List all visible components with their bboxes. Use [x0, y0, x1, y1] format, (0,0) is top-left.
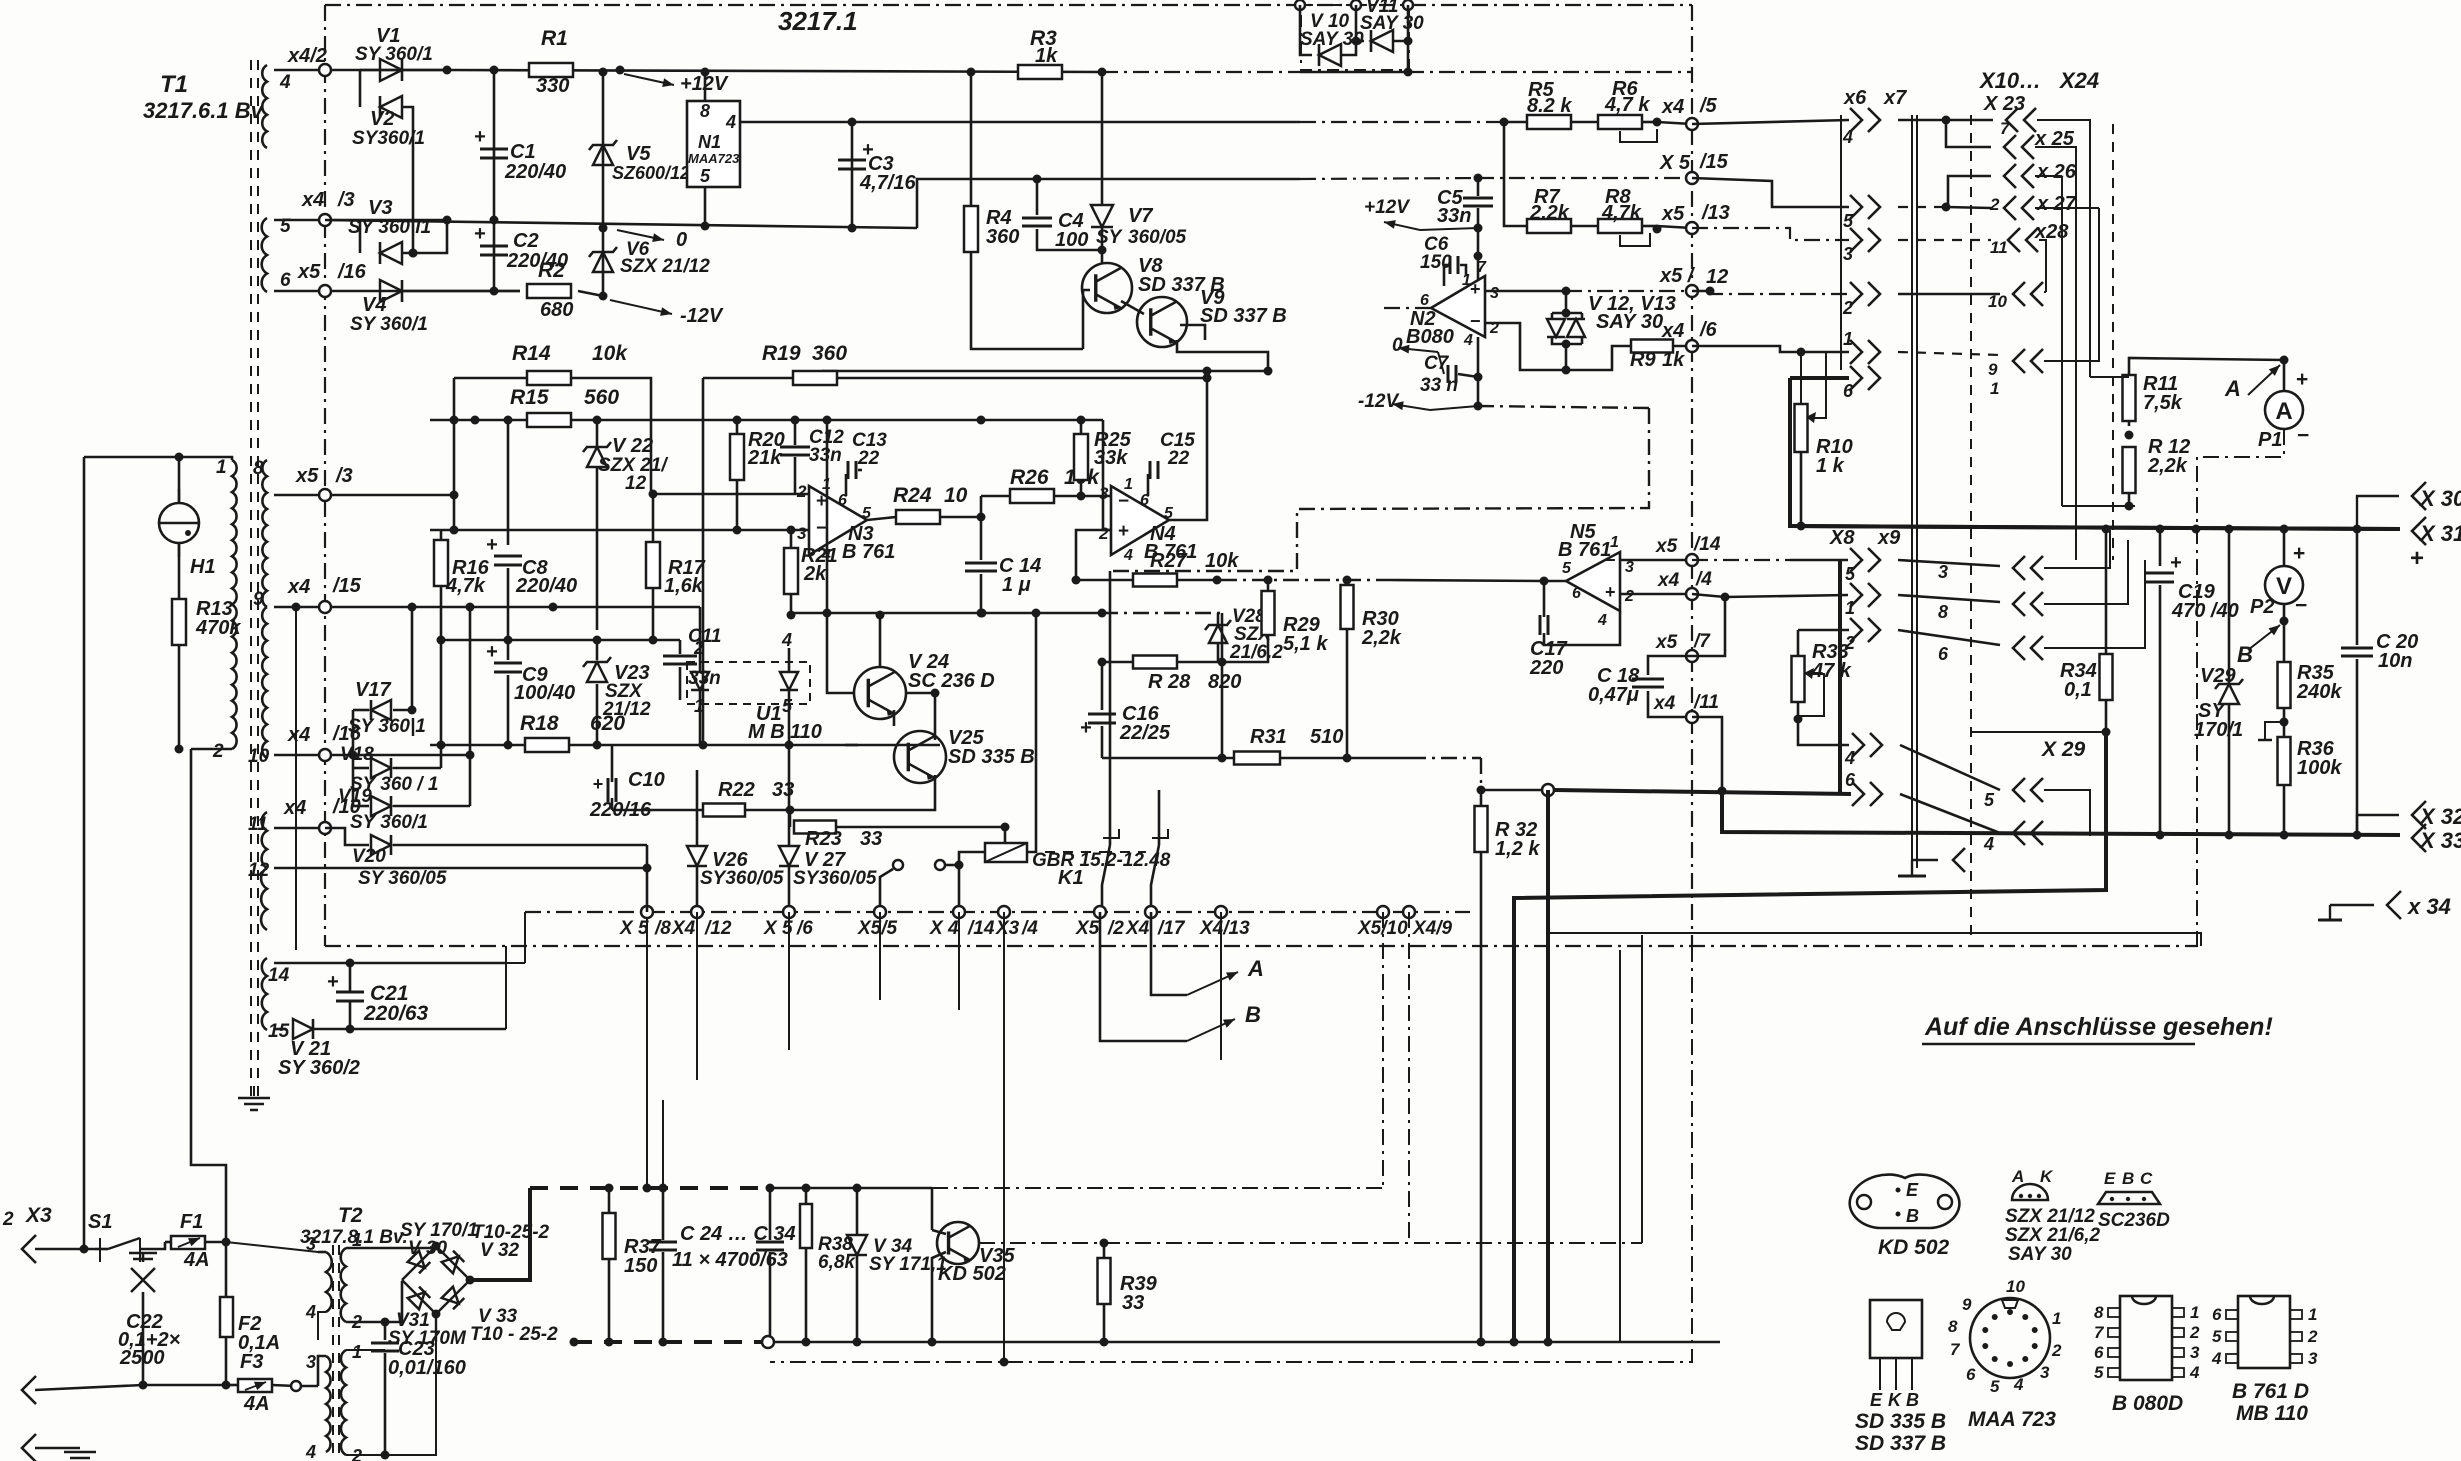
svg-text:0: 0 [676, 229, 687, 251]
diode V26 [696, 770, 699, 846]
svg-text:SAY 30: SAY 30 [1596, 311, 1663, 333]
svg-text:220/40: 220/40 [504, 161, 566, 183]
svg-text:510: 510 [1310, 726, 1343, 748]
svg-text:33 n: 33 n [1420, 375, 1458, 396]
svg-text:A: A [1247, 956, 1264, 981]
svg-text:1k: 1k [1035, 45, 1058, 67]
pin x4/15 [274, 606, 700, 609]
capacitor C11 [679, 640, 682, 654]
svg-text:4: 4 [1844, 748, 1855, 768]
wire R12 bottom [2062, 505, 2135, 507]
capacitor C23 [384, 1322, 387, 1340]
svg-text:X 30: X 30 [2418, 486, 2461, 511]
svg-text:170/: 170/ [2194, 719, 2235, 741]
connector X25 [1946, 120, 1991, 147]
svg-text:220/63: 220/63 [363, 1002, 429, 1025]
svg-text:+: + [474, 223, 486, 245]
diode V1 [360, 69, 447, 72]
svg-text:3: 3 [1843, 244, 1853, 264]
svg-text:/7: /7 [1693, 631, 1711, 652]
svg-text:0,1: 0,1 [2064, 679, 2092, 701]
svg-text:X5/5: X5/5 [857, 918, 898, 939]
svg-text:V7: V7 [1128, 205, 1153, 227]
svg-text:240k: 240k [2296, 681, 2342, 703]
thick column x1548 [1546, 790, 1550, 933]
connector X26 [2004, 164, 2016, 188]
wire y615 to V22col [826, 420, 829, 615]
diode V18 [371, 758, 391, 778]
svg-text:V2: V2 [370, 108, 394, 130]
diode V3 [359, 220, 362, 253]
R8 bracket [1620, 233, 1650, 246]
wire V24 base [827, 615, 854, 693]
svg-text:4,7k: 4,7k [445, 575, 486, 597]
resistor R16 [440, 530, 443, 540]
svg-text:/12: /12 [704, 918, 732, 939]
pin x4/9 [1403, 906, 1415, 918]
svg-text:x5: x5 [295, 465, 319, 487]
svg-text:22/25: 22/25 [1119, 722, 1171, 744]
svg-text:C1: C1 [510, 141, 536, 163]
bus y1342 [574, 1340, 762, 1344]
capacitor C9 [507, 640, 510, 660]
diode V11 [1356, 40, 1364, 43]
wire x5/14 to X8 [1692, 559, 1790, 561]
svg-text:R2: R2 [538, 259, 565, 282]
svg-text:V20: V20 [352, 846, 386, 867]
resistor R37 [608, 1188, 611, 1213]
svg-text:/13: /13 [1701, 202, 1730, 224]
pin x5/2 [1094, 906, 1106, 918]
svg-text:SY 170M: SY 170M [388, 1328, 467, 1349]
pin x4/11 [1686, 711, 1698, 723]
svg-text:V 30: V 30 [408, 1238, 448, 1259]
op-amp N5 [1566, 552, 1620, 611]
svg-text:X4: X4 [671, 918, 696, 939]
svg-text:0,01/160: 0,01/160 [388, 1357, 466, 1379]
arrow -12V N2 [1392, 404, 1430, 410]
wire H1 top [178, 457, 181, 503]
wire left mains vertical [83, 457, 86, 1249]
module border left [324, 5, 326, 946]
wire C5-N2 [1477, 228, 1480, 288]
svg-text:4A: 4A [243, 1393, 270, 1415]
svg-text:SZX 21/12: SZX 21/12 [2005, 1206, 2095, 1227]
resistor R9 [1631, 340, 1673, 353]
svg-text:4: 4 [305, 1302, 316, 1322]
wire R13 [178, 543, 181, 599]
svg-text:X4/13: X4/13 [1199, 918, 1250, 939]
wire x5/7 [1692, 597, 1725, 656]
svg-text:−: − [2297, 424, 2309, 447]
svg-text:6: 6 [2212, 1305, 2222, 1324]
svg-text:x7: x7 [1883, 87, 1907, 109]
svg-text:N1: N1 [698, 132, 721, 152]
wire aux up1 [506, 962, 525, 964]
bridge V30-V33 [436, 1246, 470, 1280]
pin x5/5 [874, 906, 886, 918]
svg-text:1: 1 [1843, 329, 1853, 349]
svg-text:2: 2 [1989, 195, 2000, 214]
fuse F1 [171, 1236, 205, 1249]
diode V21 [274, 1028, 286, 1031]
svg-text:R23: R23 [805, 828, 842, 850]
connector X28 [1898, 239, 1991, 241]
svg-text:2,2k: 2,2k [2147, 455, 2188, 477]
transistor V35 [937, 1222, 979, 1264]
U1 photodiode [780, 672, 798, 690]
svg-text:6: 6 [1938, 644, 1949, 664]
svg-text:x4: x4 [301, 189, 324, 211]
svg-text:4: 4 [1597, 612, 1607, 629]
svg-text:SY 360/1: SY 360/1 [350, 812, 428, 833]
svg-text:R19: R19 [762, 342, 801, 365]
arrow 0 [617, 230, 664, 240]
svg-text:3: 3 [1490, 285, 1499, 302]
capacitor C19 [2159, 529, 2162, 566]
wire N5 -in [1620, 559, 1692, 562]
wire V25 emitter [790, 775, 935, 810]
relay dashed link [1027, 851, 1102, 853]
thick sense bus [1514, 732, 2106, 1342]
connector X8 row4 [1852, 733, 1864, 757]
svg-text:10k: 10k [592, 342, 628, 365]
wire V10 box down [1407, 41, 1410, 72]
transformer T1 core [250, 60, 252, 1105]
resistor R35 [2278, 662, 2291, 708]
X31 bus [1790, 526, 2400, 529]
svg-text:x5: x5 [1655, 632, 1678, 653]
transistor V25 [894, 731, 946, 783]
svg-text:22: 22 [1167, 448, 1190, 469]
svg-text:7: 7 [2000, 119, 2011, 138]
svg-text:1: 1 [216, 457, 227, 478]
wires from pin row down [696, 912, 698, 1080]
svg-text:F1: F1 [180, 1211, 203, 1233]
pin x4/4 [1686, 588, 1698, 600]
package B080D [2120, 1296, 2172, 1380]
svg-text:-12V: -12V [1358, 391, 1399, 412]
resistor R26 [981, 495, 1010, 498]
svg-text:8.2 k: 8.2 k [1527, 95, 1572, 117]
svg-text:4: 4 [1463, 332, 1473, 349]
svg-text:3217.1: 3217.1 [778, 6, 858, 36]
resistor R5 [1504, 121, 1527, 124]
svg-text:6: 6 [1572, 585, 1581, 602]
pin top2 [1351, 0, 1361, 10]
svg-text:2: 2 [1842, 298, 1853, 318]
svg-text:x5 /: x5 / [1659, 265, 1696, 287]
svg-text:SY 360/1: SY 360/1 [350, 314, 428, 335]
svg-text:GBR 15.2-12.48: GBR 15.2-12.48 [1032, 850, 1171, 871]
resistor R8 [1571, 225, 1598, 228]
connector row3 [1850, 228, 1862, 252]
svg-text:A: A [2224, 376, 2241, 401]
resistor R11 [2129, 358, 2284, 377]
svg-text:3: 3 [2040, 1363, 2050, 1382]
svg-text:SY360/05: SY360/05 [793, 868, 877, 889]
svg-text:SD 335 B: SD 335 B [948, 746, 1035, 768]
conn row4 to X23 [1898, 119, 1946, 122]
svg-text:560: 560 [584, 386, 619, 409]
bridge bottom [435, 1314, 437, 1342]
wire x5/15 [1478, 177, 1692, 179]
svg-text:B 761: B 761 [1558, 539, 1611, 561]
svg-text:2: 2 [212, 741, 224, 762]
svg-text:3: 3 [2190, 1343, 2200, 1362]
svg-text:3: 3 [306, 1234, 316, 1254]
transistor V24 [854, 667, 906, 719]
svg-text:4: 4 [1842, 127, 1853, 147]
svg-text:R1: R1 [541, 27, 568, 50]
svg-text:8: 8 [1938, 602, 1948, 622]
svg-text:C: C [2140, 1169, 2153, 1188]
package MAA723 [1970, 1298, 2050, 1378]
x4/15 line mid [699, 607, 702, 656]
pin x5/12 [1686, 285, 1698, 297]
svg-text:5: 5 [1845, 564, 1856, 584]
svg-text:21k: 21k [747, 447, 782, 469]
svg-text:14: 14 [268, 965, 290, 986]
svg-text:+: + [327, 971, 339, 993]
arrow +12V N2 [1384, 222, 1420, 230]
svg-text:B: B [1245, 1002, 1261, 1027]
wire P1 bottom [2197, 429, 2284, 946]
svg-text:12: 12 [625, 473, 647, 494]
capacitor C8 [507, 420, 510, 545]
svg-text:5: 5 [2094, 1363, 2104, 1382]
svg-text:5: 5 [2212, 1327, 2222, 1346]
zener V22 [596, 420, 599, 447]
terminal small1 [893, 860, 903, 870]
pin x4/2 [274, 69, 447, 72]
pin x5/15 [1686, 172, 1698, 184]
svg-text:/15: /15 [332, 575, 362, 597]
capacitor C1 [493, 70, 496, 220]
svg-text:x5: x5 [297, 261, 321, 283]
diode V20 [325, 828, 369, 845]
wire V25 collector [906, 693, 935, 740]
zener V34 [856, 1188, 859, 1235]
wire +12V to C5 [1420, 228, 1478, 230]
svg-text:-12V: -12V [680, 305, 724, 327]
capacitor C17 [1543, 581, 1546, 617]
svg-text:B 761 D: B 761 D [2232, 1380, 2309, 1403]
capacitor C6 [1444, 264, 1448, 267]
X30 terminal [2357, 496, 2399, 529]
connector row5 [1850, 195, 1862, 219]
svg-text:E: E [1906, 1180, 1919, 1200]
svg-text:+: + [1080, 717, 1092, 739]
pin x5/14 [1686, 554, 1698, 566]
svg-text:10: 10 [944, 484, 968, 507]
svg-text:B: B [2122, 1169, 2134, 1188]
svg-text:X8: X8 [1829, 527, 1855, 549]
svg-text:MAA723: MAA723 [688, 151, 740, 166]
resistor R18 [430, 744, 527, 747]
connector X8 row5 [1850, 548, 1862, 572]
line y640 [441, 639, 680, 642]
diode V2 [359, 70, 362, 107]
svg-text:11: 11 [1990, 238, 2008, 257]
svg-text:/5: /5 [1699, 95, 1718, 117]
wire V12 bottom to R9 [1566, 346, 1631, 370]
svg-text:R15: R15 [510, 386, 549, 409]
svg-text:1: 1 [2232, 719, 2243, 741]
arrow A meter [2248, 365, 2280, 395]
package KD502 [1850, 1175, 1960, 1228]
svg-text:x4: x4 [1661, 96, 1684, 118]
zener V28 [1209, 625, 1227, 643]
svg-text:10: 10 [2006, 1277, 2025, 1296]
svg-text:4: 4 [305, 1442, 316, 1461]
svg-text:10: 10 [248, 746, 270, 767]
svg-text:220: 220 [1529, 657, 1563, 679]
svg-text:C7: C7 [1424, 353, 1450, 374]
optocoupler U1 box [687, 662, 810, 704]
arrow A line [1151, 912, 1187, 995]
svg-text:1: 1 [352, 1342, 362, 1362]
resistor R23 [789, 810, 792, 827]
junction dots top [443, 66, 452, 75]
wire tap9 down [295, 607, 297, 950]
R6 bracket [1620, 129, 1657, 142]
svg-text:K1: K1 [1058, 867, 1084, 889]
connector X8 row6 [1852, 782, 1864, 806]
svg-text:4: 4 [1983, 834, 1994, 854]
arrow +12V [624, 74, 674, 85]
voltmeter P2 [2283, 529, 2286, 566]
wire N5 out [1544, 580, 1566, 583]
svg-text:X3: X3 [25, 1204, 52, 1227]
wire x5/13 to conn [1692, 228, 1849, 240]
ground mains [35, 1447, 80, 1450]
pin x5/7 [1686, 650, 1698, 662]
svg-text:x 26: x 26 [2036, 161, 2077, 183]
diode V17 [353, 709, 369, 712]
svg-text:10k: 10k [1205, 550, 1239, 572]
svg-text:SD 337 B: SD 337 B [1855, 1432, 1946, 1455]
svg-text:4,7k: 4,7k [1601, 202, 1642, 224]
svg-text:3: 3 [1625, 559, 1634, 576]
wire V22 junction [649, 490, 658, 499]
resistor R20 [736, 420, 739, 434]
U1 LED [691, 672, 709, 690]
pin x5/3 [274, 494, 454, 497]
svg-text:33k: 33k [1094, 447, 1128, 469]
package SD335 [1870, 1300, 1922, 1358]
svg-text:2,2k: 2,2k [1361, 627, 1402, 649]
svg-text:SY 360|1: SY 360|1 [348, 716, 426, 737]
wire K1 right feed [1027, 613, 1036, 852]
svg-text:8: 8 [253, 458, 264, 479]
svg-text:/16: /16 [337, 261, 367, 283]
svg-text:22: 22 [857, 448, 880, 469]
svg-text:X 31: X 31 [2418, 521, 2461, 546]
arrow B meter [2248, 625, 2280, 650]
capacitor C2 [493, 220, 496, 291]
IC N1 MAA723 [687, 101, 740, 187]
svg-text:3: 3 [1099, 484, 1109, 503]
resistor R24 [867, 517, 896, 520]
wire P2 bottom [2283, 604, 2286, 663]
X32/X33 bus terminals [2156, 831, 2165, 840]
svg-text:x9: x9 [1877, 527, 1901, 549]
svg-text:/6: /6 [1699, 319, 1718, 341]
svg-text:V18: V18 [340, 744, 374, 765]
svg-text:+: + [2296, 368, 2308, 391]
svg-text:47 k: 47 k [1811, 660, 1852, 682]
svg-text:V 22: V 22 [612, 435, 653, 457]
svg-text:2: 2 [2051, 1341, 2062, 1360]
package SZX21 [2012, 1184, 2048, 1200]
ammeter P1 [2283, 360, 2286, 392]
svg-text:1 k: 1 k [1816, 455, 1845, 477]
resistor R1 [529, 63, 573, 77]
resistor R15 [430, 419, 527, 422]
svg-text:1: 1 [2308, 1305, 2317, 1324]
svg-text:4: 4 [279, 72, 291, 93]
T2 secondary [341, 1248, 346, 1322]
svg-text:/8: /8 [654, 918, 671, 939]
svg-text:P1: P1 [2258, 429, 2282, 451]
svg-text:4,7 k: 4,7 k [1604, 94, 1650, 116]
svg-text:V: V [2276, 573, 2292, 600]
diode V19 [353, 805, 369, 808]
svg-text:21/6.2: 21/6.2 [1229, 642, 1283, 663]
arrow -12V [610, 300, 672, 314]
resistor R22 [612, 809, 702, 812]
0 rail [325, 220, 917, 228]
+12V rail right segment [1408, 71, 1692, 73]
wire R19 left vertical [702, 378, 705, 745]
svg-text:SY360/05: SY360/05 [700, 868, 784, 889]
N3 + input wire [651, 493, 809, 496]
svg-text:1,6k: 1,6k [664, 575, 704, 597]
svg-text:10n: 10n [2378, 650, 2412, 672]
thick bus to X33 [1722, 791, 2400, 835]
svg-text:4: 4 [2013, 1375, 2024, 1394]
wire x4/5 to conn [1692, 120, 1849, 124]
connector row2 right [1898, 293, 2000, 296]
T1 secondary winding 8-12 [262, 460, 267, 607]
thick bus X8-6 [1542, 784, 1554, 796]
arrow B line [1100, 912, 1187, 1041]
svg-text:3217.6.1 Bv: 3217.6.1 Bv [143, 98, 265, 123]
vertical x1642 [1641, 935, 1643, 1243]
svg-text:+: + [474, 126, 486, 148]
terminal small2 [935, 860, 945, 870]
svg-text:0,47μ: 0,47μ [1588, 684, 1639, 706]
wire x5/12 to conn [1710, 291, 1849, 294]
dashdot X5/10 down [1382, 912, 1384, 1188]
lamp H1 [159, 503, 199, 543]
svg-text:5: 5 [1984, 790, 1995, 810]
pin x4/13 [1215, 906, 1227, 918]
connector row1 [1850, 340, 1862, 364]
wire mains top [35, 1248, 95, 1251]
wire V24-V25 [879, 615, 882, 667]
svg-text:B: B [2237, 642, 2253, 667]
svg-text:/3: /3 [335, 465, 353, 487]
matrix vertical lines [1840, 115, 1842, 370]
relay K1 coil [959, 852, 985, 865]
capacitor C4 [1036, 179, 1039, 215]
resistor R19 [703, 377, 794, 380]
svg-text:6: 6 [1966, 1365, 1976, 1384]
+12V rail [447, 70, 1102, 72]
svg-text:7: 7 [1950, 1340, 1961, 1359]
